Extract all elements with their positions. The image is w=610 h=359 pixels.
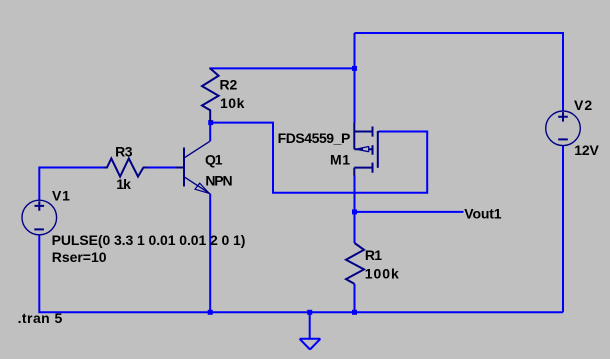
mosfet M1 bulk lead and plate bbox=[354, 145, 372, 154]
svg-text:PULSE(0 3.3 1 0.01 0.01 2 0 1): PULSE(0 3.3 1 0.01 0.01 2 0 1) bbox=[52, 232, 246, 248]
mosfet M1 drain stub and plate bbox=[354, 163, 372, 173]
wire: R1 bottom lead to bottom rail bbox=[354, 284, 356, 312]
svg-text:Q1: Q1 bbox=[205, 152, 223, 168]
mosfet M1 drain lead bbox=[353, 168, 355, 176]
transistor Q1 base bar bbox=[183, 148, 185, 187]
voltage source V2 minus bbox=[558, 138, 568, 140]
svg-text:1k: 1k bbox=[116, 176, 131, 192]
wire: Vout1 tap bbox=[355, 211, 464, 213]
mosfet M1 source lead bbox=[353, 123, 355, 132]
node: junction R1 / bottom rail bbox=[352, 310, 357, 315]
mosfet M1 gate line bbox=[377, 131, 379, 168]
svg-text:Rser=10: Rser=10 bbox=[52, 249, 107, 265]
mosfet M1 bulk tie bbox=[353, 132, 355, 150]
voltage source V2 circle bbox=[546, 111, 581, 146]
transistor Q1 collector diagonal bbox=[184, 141, 210, 158]
voltage source V1 minus bbox=[34, 228, 44, 230]
voltage source V1 circle bbox=[22, 200, 57, 235]
wire: mid rail R2 top to M1 source column bbox=[209, 67, 354, 69]
svg-text:NPN: NPN bbox=[205, 173, 232, 189]
wire: top rail from M1 source column to V2 bbox=[355, 33, 564, 111]
node: junction R2/Q1 collector/gate bbox=[208, 120, 213, 125]
mosfet M1 source stub and plate bbox=[354, 127, 372, 137]
wire: Q1 collector stub bbox=[209, 123, 211, 142]
transistor Q1 base lead bbox=[175, 167, 184, 169]
svg-text:V1: V1 bbox=[52, 187, 71, 203]
svg-text:12V: 12V bbox=[574, 142, 599, 158]
svg-text:.tran 5: .tran 5 bbox=[18, 310, 63, 326]
node: junction Vout1 bbox=[352, 209, 357, 214]
svg-text:R3: R3 bbox=[115, 143, 133, 159]
transistor Q1 emitter arrow bbox=[195, 183, 209, 193]
svg-text:M1: M1 bbox=[330, 152, 351, 168]
svg-text:V2: V2 bbox=[574, 97, 593, 113]
resistor R1 body bbox=[346, 243, 364, 284]
wire: R3 right to Q1 base bbox=[147, 167, 175, 169]
svg-text:10k: 10k bbox=[220, 95, 245, 111]
node: junction top rail / M1 source bbox=[352, 66, 357, 71]
svg-text:FDS4559_P: FDS4559_P bbox=[278, 130, 350, 146]
wire: bottom rail from V1 to V2 bbox=[39, 235, 563, 313]
resistor R3 body bbox=[103, 158, 147, 176]
svg-text:R1: R1 bbox=[365, 247, 382, 263]
wire: V2 bottom to bottom rail bbox=[562, 146, 564, 313]
node: junction ground / bottom rail bbox=[307, 310, 312, 315]
voltage source V1 plus bbox=[35, 201, 45, 211]
ground bbox=[300, 339, 321, 350]
svg-text:100k: 100k bbox=[365, 265, 400, 281]
wire: gate net from collector junction around M1 body bbox=[210, 123, 427, 193]
voltage source V2 plus bbox=[558, 112, 568, 122]
wire: V1 top lead up and base wire right to R3 bbox=[39, 168, 104, 201]
wire: Q1 emitter down to bottom rail bbox=[209, 194, 211, 313]
transistor Q1 emitter diagonal bbox=[184, 177, 210, 194]
resistor R2 body bbox=[202, 68, 219, 122]
wire: M1 drain down to R1 bbox=[354, 175, 356, 243]
wire: ground stub bbox=[309, 312, 311, 339]
mosfet M1 bulk arrow bbox=[358, 146, 369, 152]
svg-text:R2: R2 bbox=[220, 76, 238, 92]
node: junction emitter / bottom rail bbox=[208, 310, 213, 315]
svg-text:Vout1: Vout1 bbox=[464, 206, 501, 222]
wire: M1 source vertical from top rail bbox=[354, 33, 356, 123]
